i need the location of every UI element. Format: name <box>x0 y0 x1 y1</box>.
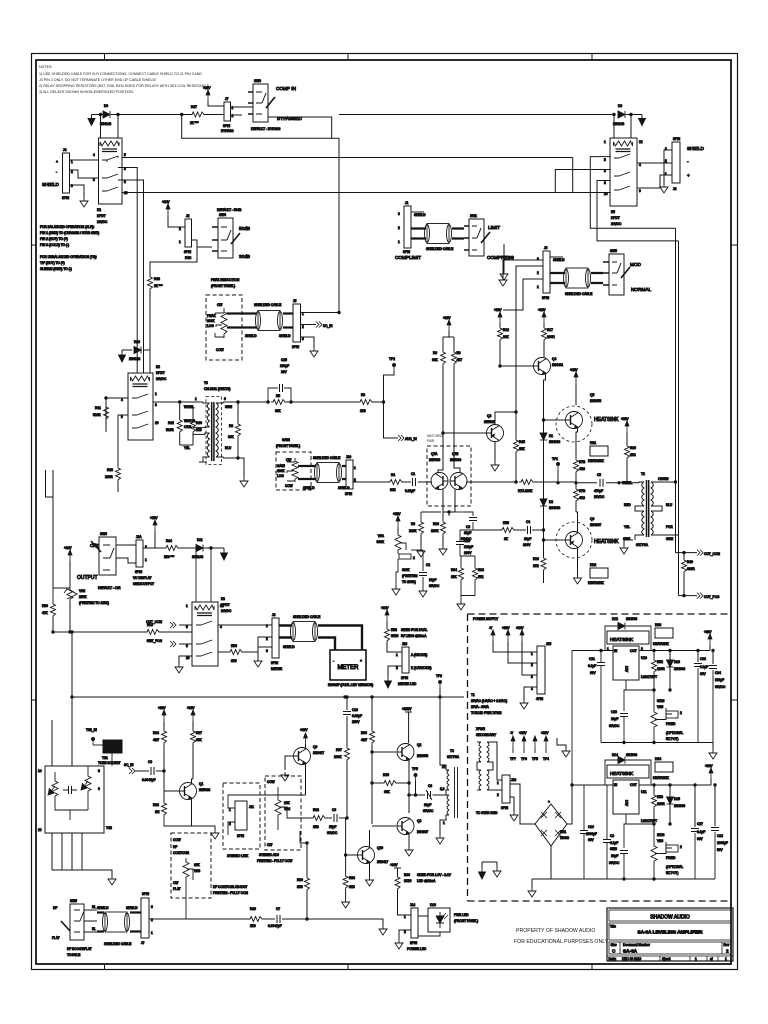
svg-text:3: 3 <box>302 337 304 341</box>
svg-text:GAIN: GAIN <box>282 438 290 442</box>
svg-text:C7: C7 <box>276 907 280 911</box>
svg-text:3K26: 3K26 <box>657 699 665 703</box>
svg-text:SW5: SW5 <box>70 899 77 903</box>
bus y=632 <box>53 631 192 633</box>
pot VR2 <box>68 550 72 561</box>
connector J3 XLR out <box>672 142 680 183</box>
svg-text:HEATSINK: HEATSINK <box>588 581 605 585</box>
wire J6 shield <box>550 256 563 258</box>
OUT_COM stub <box>676 552 698 554</box>
svg-text:100K: 100K <box>277 469 285 473</box>
svg-text:3K3: 3K3 <box>349 885 355 889</box>
svg-text:C4: C4 <box>526 520 530 524</box>
wire adj node down <box>624 690 626 711</box>
resistor R7A <box>516 481 518 483</box>
wire Q2 base <box>372 751 396 753</box>
svg-text:4: 4 <box>121 398 123 402</box>
connector J5 <box>293 304 301 342</box>
svg-text:1: 1 <box>229 808 231 812</box>
svg-text:63VDC: 63VDC <box>715 685 726 689</box>
svg-text:4PIN: 4PIN <box>536 697 544 701</box>
svg-text:C15: C15 <box>281 358 287 362</box>
heatsink dashed circle Q6 <box>556 522 592 558</box>
power arrow right of D8 <box>641 115 643 119</box>
diode D9 <box>103 111 110 118</box>
LDR element 2 <box>85 773 91 795</box>
relay K5 <box>610 138 637 206</box>
heatsink HS1 box <box>590 446 608 456</box>
test point TP2 <box>392 363 395 371</box>
svg-text:24VDC: 24VDC <box>611 222 622 226</box>
svg-text:PUR: PUR <box>666 525 673 529</box>
resistor R29 <box>248 917 264 922</box>
OUT_POS tag into K3 <box>179 643 192 645</box>
svg-text:8: 8 <box>98 769 100 773</box>
svg-text:U10: U10 <box>641 656 647 660</box>
transformer T3 core <box>212 402 214 461</box>
HF contour dashed box <box>171 833 211 898</box>
stereo link dashed box <box>223 783 260 849</box>
svg-text:68K: 68K <box>275 409 282 413</box>
svg-text:HS1: HS1 <box>590 441 596 445</box>
supply arrows bottom left <box>482 862 497 868</box>
wire left rail from above <box>46 470 54 588</box>
svg-text:10K: 10K <box>194 863 201 867</box>
border tick right <box>731 244 738 246</box>
svg-text:J2A: J2A <box>136 535 142 539</box>
cap C27 <box>694 785 696 827</box>
connector J7 bypass <box>224 102 231 121</box>
svg-text:28VAC (14VAC + 14VAC): 28VAC (14VAC + 14VAC) <box>471 699 507 703</box>
svg-text:1K ***: 1K *** <box>154 284 163 288</box>
svg-text:C3: C3 <box>466 525 470 529</box>
svg-text:+28V: +28V <box>393 512 401 516</box>
svg-text:1N4148: 1N4148 <box>613 122 624 126</box>
svg-text:STEREO ADJ: STEREO ADJ <box>259 853 279 857</box>
ground under R10 <box>439 546 447 555</box>
svg-text:1: 1 <box>396 653 398 657</box>
wire Q6 base <box>544 539 566 541</box>
title block frame <box>607 908 733 961</box>
svg-text:6A77GA: 6A77GA <box>636 543 649 547</box>
svg-text:R2: R2 <box>229 424 233 428</box>
svg-text:GAIN: GAIN <box>277 464 285 468</box>
svg-text:BYPASS: BYPASS <box>221 129 234 133</box>
wire Q7 emitters join bus <box>418 481 516 483</box>
svg-text:2PIN: 2PIN <box>410 941 418 945</box>
diode D15 <box>669 785 671 797</box>
U11 adj wire <box>626 814 654 824</box>
svg-text:2: 2 <box>680 845 682 849</box>
svg-text:+28V: +28V <box>502 626 510 630</box>
wire into R4 from left <box>380 481 388 483</box>
shielded cable mod <box>564 268 591 288</box>
wire Q5 emitter down <box>576 429 578 459</box>
svg-text:1N4148: 1N4148 <box>129 357 140 361</box>
svg-text:+28V: +28V <box>494 308 502 312</box>
svg-text:FIXED: FIXED <box>666 856 676 860</box>
test point TP8 <box>438 680 441 688</box>
wire Q5 base <box>544 419 566 421</box>
switch SW3 O/R <box>99 537 116 575</box>
svg-text:1: 1 <box>607 647 609 651</box>
test point arrows row <box>511 736 515 747</box>
svg-text:HS2: HS2 <box>590 563 596 567</box>
svg-text:PROPERTY OF SHADOW AUDIO: PROPERTY OF SHADOW AUDIO <box>516 928 595 934</box>
svg-text:25VDC: 25VDC <box>594 495 605 499</box>
svg-text:SIZED FOR DUAL: SIZED FOR DUAL <box>401 628 428 632</box>
cap C9 <box>334 814 337 822</box>
svg-text:3PIN: 3PIN <box>501 806 509 810</box>
diode D2 <box>540 499 547 506</box>
svg-text:WH/OR: WH/OR <box>184 419 196 423</box>
svg-text:ADJ: ADJ <box>625 800 629 806</box>
svg-text:SHIELDED CABLE: SHIELDED CABLE <box>565 292 592 296</box>
svg-text:R29: R29 <box>250 907 256 911</box>
wire D1 to D2 <box>543 440 545 500</box>
svg-text:R44: R44 <box>166 539 172 543</box>
svg-text:+24V: +24V <box>390 863 398 867</box>
SC_IN tag <box>316 322 322 328</box>
test point TP5 <box>414 773 417 781</box>
svg-text:2: 2 <box>726 949 729 954</box>
resistor R36 <box>370 729 375 745</box>
resistor R37 <box>346 726 348 746</box>
svg-text:R46: R46 <box>687 560 693 564</box>
svg-text:2: 2 <box>413 556 415 560</box>
cap C6 <box>151 767 154 775</box>
ground under T3 <box>240 478 248 487</box>
svg-text:C26: C26 <box>611 847 617 851</box>
svg-text:1: 1 <box>497 781 499 785</box>
svg-text:J11: J11 <box>249 805 254 809</box>
svg-text:1: 1 <box>398 240 400 244</box>
svg-text:C6: C6 <box>148 760 152 764</box>
wire Q4 emitter down rail <box>544 375 546 434</box>
svg-text:15K: 15K <box>519 447 526 451</box>
svg-text:TP1: TP1 <box>552 457 558 461</box>
power arrow right of D11 <box>221 549 228 560</box>
cap C1 <box>404 481 411 483</box>
connector J12 <box>141 898 149 938</box>
svg-text:63VDC: 63VDC <box>609 861 620 865</box>
svg-text:2: 2 <box>151 918 153 922</box>
OUT_COM tag into K3 <box>179 624 192 626</box>
svg-text:470µF: 470µF <box>594 489 603 493</box>
svg-text:2PIN: 2PIN <box>401 676 409 680</box>
resistor R27 <box>191 729 196 745</box>
svg-text:PIN 2 (HOT) TO (+): PIN 2 (HOT) TO (+) <box>40 237 68 241</box>
+24V over R58 <box>385 610 389 621</box>
transformer T3 secondary <box>216 403 218 457</box>
wire Q7 base node down <box>448 512 450 516</box>
svg-text:15µF: 15µF <box>329 825 336 829</box>
svg-text:2: 2 <box>404 930 406 934</box>
svg-text:1: 1 <box>195 397 197 401</box>
svg-text:DEFAULT - 50dB: DEFAULT - 50dB <box>217 208 241 212</box>
wire rail down to AUD_IN <box>384 402 399 438</box>
svg-text:K4: K4 <box>97 208 101 212</box>
wire J6 pins left drops <box>516 266 543 438</box>
svg-text:Q4: Q4 <box>552 357 556 361</box>
svg-text:R55: R55 <box>503 521 509 525</box>
wires into LDR box top <box>71 697 73 766</box>
svg-text:R3: R3 <box>361 393 365 397</box>
svg-text:D13: D13 <box>674 660 680 664</box>
svg-text:2N5087: 2N5087 <box>484 420 495 424</box>
svg-text:D11: D11 <box>197 538 203 542</box>
svg-text:TP7: TP7 <box>510 757 516 761</box>
svg-text:R9: R9 <box>457 351 461 355</box>
svg-text:SHIELD: SHIELD <box>303 486 315 490</box>
svg-text:C2: C2 <box>426 563 430 567</box>
svg-text:1: 1 <box>443 821 445 825</box>
+28V over Q9 <box>304 733 308 744</box>
svg-text:+28V: +28V <box>300 728 308 732</box>
svg-text:D12: D12 <box>612 617 618 621</box>
connector J11 stereo link <box>235 801 247 830</box>
wire Q8 base left <box>481 432 486 434</box>
transformer T2 core <box>647 480 649 537</box>
svg-text:R42: R42 <box>168 421 174 425</box>
svg-text:5K1: 5K1 <box>478 575 484 579</box>
svg-text:510R: 510R <box>93 413 101 417</box>
svg-text:1) USE SHIELDED CABLE FOR XLR: 1) USE SHIELDED CABLE FOR XLR CONNECTION… <box>39 72 202 76</box>
connector J6 mod <box>543 251 550 293</box>
cap C8b <box>603 840 611 843</box>
pot VR3 <box>183 858 189 881</box>
resistor R35 <box>372 782 382 784</box>
svg-text:+: + <box>360 659 362 663</box>
shielded cable SW5 <box>97 913 104 932</box>
svg-text:3PIN: 3PIN <box>184 250 192 254</box>
transistor Q6 <box>565 532 583 549</box>
cap C7 <box>277 915 280 923</box>
svg-text:TUBE SOCKET: TUBE SOCKET <box>98 761 121 765</box>
svg-text:2PIN: 2PIN <box>237 834 245 838</box>
svg-text:FOR UNBALANCED OPERATION (TS):: FOR UNBALANCED OPERATION (TS): <box>40 255 97 259</box>
svg-text:1K3: 1K3 <box>360 409 366 413</box>
power arrow left of D10 <box>122 350 132 353</box>
svg-text:R6: R6 <box>433 351 437 355</box>
svg-text:1N4003: 1N4003 <box>674 804 685 808</box>
resistor R45 <box>515 412 517 438</box>
svg-text:TOGGLE: TOGGLE <box>67 953 80 957</box>
svg-text:C13: C13 <box>717 834 723 838</box>
svg-text:220K: 220K <box>409 529 417 533</box>
svg-text:3K16: 3K16 <box>391 634 399 638</box>
resistor R12 <box>498 312 502 323</box>
wire link pin <box>228 795 306 835</box>
svg-text:3PIN: 3PIN <box>62 196 70 200</box>
relay K3 <box>192 602 218 666</box>
svg-text:PIN 3 (COLD) TO (-): PIN 3 (COLD) TO (-) <box>40 243 69 247</box>
svg-text:1K2: 1K2 <box>533 564 539 568</box>
wires J1 to cable <box>411 229 426 239</box>
svg-text:+28V: +28V <box>187 706 195 710</box>
regulator U10 <box>613 646 639 680</box>
ground under SW1 <box>500 271 508 280</box>
svg-text:5: 5 <box>604 158 606 162</box>
svg-text:D9: D9 <box>104 104 108 108</box>
svg-text:TB1: TB1 <box>102 756 108 760</box>
resistor R53 <box>653 785 655 793</box>
junction nodes at D8 <box>613 113 615 115</box>
wire bus ground <box>531 879 533 888</box>
+28V arrow over Q5 <box>574 372 578 383</box>
wire to C8 <box>409 794 425 796</box>
ground under J5 <box>310 348 318 357</box>
relay K2 contacts <box>132 394 148 428</box>
svg-text:SC_IN: SC_IN <box>323 324 333 328</box>
svg-text:A (ANODE): A (ANODE) <box>411 653 427 657</box>
svg-text:1: 1 <box>531 652 533 656</box>
LED D16 box <box>428 908 450 932</box>
svg-text:6: 6 <box>98 787 100 791</box>
wire J16 ground <box>510 797 514 812</box>
left rail down from bus632 <box>71 631 73 633</box>
wire K5 to J3 <box>637 163 672 188</box>
wire J12 pin2 to bus <box>149 918 151 920</box>
svg-text:U11: U11 <box>641 790 647 794</box>
svg-text:HF BOOST/FLAT: HF BOOST/FLAT <box>67 947 92 951</box>
regulator U11 <box>613 780 639 814</box>
resistor R3 <box>358 400 374 405</box>
svg-text:(FRONT PANEL): (FRONT PANEL) <box>454 919 478 923</box>
svg-text:POWER LED: POWER LED <box>407 947 427 951</box>
svg-text:130R: 130R <box>105 475 113 479</box>
svg-text:200K: 200K <box>334 755 342 759</box>
wire Q6 collector/emitter <box>576 512 578 575</box>
ground under T4 <box>436 835 444 844</box>
svg-text:220µF: 220µF <box>715 678 724 682</box>
resistor R10 <box>442 512 444 520</box>
svg-text:3: 3 <box>266 649 268 653</box>
svg-text:T3: T3 <box>204 381 208 385</box>
connector J2A <box>136 540 143 567</box>
wire top bus to D8 <box>339 114 614 116</box>
svg-text:DPDT: DPDT <box>221 603 230 607</box>
svg-text:180K: 180K <box>431 529 439 533</box>
svg-text:C1: C1 <box>411 472 415 476</box>
diode D10 <box>134 347 141 354</box>
svg-text:Q7B: Q7B <box>452 452 458 456</box>
resistor R4 <box>388 480 404 485</box>
wire VR3 connections <box>185 881 187 919</box>
resistor R46 <box>683 553 685 558</box>
svg-text:METER: METER <box>271 667 283 671</box>
svg-text:1N4003: 1N4003 <box>626 753 637 757</box>
svg-text:VR5: VR5 <box>657 705 663 709</box>
svg-text:R60: R60 <box>404 873 410 877</box>
wire Q3 emitter ground <box>408 835 410 848</box>
T4 winding pins <box>440 770 449 835</box>
svg-text:CCW: CCW <box>216 348 224 352</box>
T3 pin wires <box>193 402 223 458</box>
svg-text:68K: 68K <box>147 639 154 643</box>
svg-text:0.1µF: 0.1µF <box>697 830 705 834</box>
cap C10 <box>580 831 588 834</box>
svg-text:OUTPUT: OUTPUT <box>77 575 98 581</box>
svg-text:TP5: TP5 <box>412 767 418 771</box>
svg-text:PRETRIM - FULLY CCM: PRETRIM - FULLY CCM <box>213 891 248 895</box>
svg-text:BLU: BLU <box>666 503 673 507</box>
svg-text:of: of <box>710 957 713 961</box>
bottom rail upper reg <box>601 742 713 744</box>
svg-text:OUT_COM: OUT_COM <box>704 552 720 556</box>
test point TP1 <box>556 462 559 470</box>
svg-text:J1: J1 <box>405 201 409 205</box>
svg-text:CW: CW <box>217 303 222 307</box>
wire J15 pin4 ground <box>524 687 537 700</box>
svg-text:R7B: R7B <box>579 460 585 464</box>
wire long bus y=192.5 <box>122 192 611 194</box>
svg-text:C27: C27 <box>697 822 703 826</box>
wire Q10 collector up <box>369 830 371 847</box>
svg-text:SHIELD: SHIELD <box>279 334 291 338</box>
svg-text:VR2: VR2 <box>79 589 85 593</box>
cap C8 coupling <box>428 791 431 799</box>
svg-text:COMPRESS: COMPRESS <box>487 255 514 260</box>
svg-text:R4: R4 <box>391 473 395 477</box>
svg-text:TP6: TP6 <box>521 757 527 761</box>
svg-text:+28V: +28V <box>704 630 712 634</box>
svg-text:2N3053: 2N3053 <box>417 754 428 758</box>
svg-text:-: - <box>333 659 334 663</box>
svg-text:2: 2 <box>179 227 181 231</box>
svg-text:RED: RED <box>624 503 631 507</box>
wire J7 pin1 <box>208 101 224 106</box>
svg-text:8: 8 <box>186 644 188 648</box>
svg-text:POWER SUPPLY: POWER SUPPLY <box>473 617 499 621</box>
svg-text:3PIN: 3PIN <box>271 661 279 665</box>
relay K4 contacts <box>102 156 118 191</box>
svg-text:-: - <box>56 170 57 174</box>
wire J7 to SW2 <box>231 107 254 115</box>
+28V arrow feeding J7 <box>206 90 210 101</box>
svg-text:R43: R43 <box>107 468 113 472</box>
svg-text:CCW: CCW <box>173 838 181 842</box>
svg-text:4M7: 4M7 <box>361 738 367 742</box>
svg-text:R50: R50 <box>42 604 48 608</box>
svg-text:63V: 63V <box>697 837 704 841</box>
matched pair dashed box <box>427 446 471 506</box>
svg-text:HF: HF <box>173 845 177 849</box>
wire D2 down to R16 <box>543 506 545 556</box>
svg-text:8: 8 <box>604 181 606 185</box>
svg-text:4R3: 4R3 <box>579 496 585 500</box>
wire T3 sec bottom to ground <box>223 458 244 478</box>
left rail <box>105 398 107 430</box>
svg-text:100R: 100R <box>547 335 555 339</box>
+24V arrow pad <box>166 204 170 215</box>
svg-text:R27: R27 <box>196 731 202 735</box>
svg-text:AUD_IN: AUD_IN <box>405 437 417 441</box>
svg-text:5V LEDS @11mA: 5V LEDS @11mA <box>401 634 427 638</box>
wire K5 pin stubs left <box>590 157 678 241</box>
svg-text:2: 2 <box>537 271 539 275</box>
resistor R20 <box>625 444 630 460</box>
svg-text:6: 6 <box>224 397 226 401</box>
stereo adj dashed box <box>265 776 301 850</box>
svg-text:PIN 1 (GND) TO (CHASSIS / STAR: PIN 1 (GND) TO (CHASSIS / STAR GND) <box>40 231 99 235</box>
resistor R2 <box>237 401 239 403</box>
cap C26 <box>620 851 628 854</box>
resistor R43 <box>117 440 119 466</box>
svg-text:R28: R28 <box>153 803 159 807</box>
svg-text:SA-3A: SA-3A <box>623 949 638 954</box>
+28V over R27 <box>191 710 195 721</box>
